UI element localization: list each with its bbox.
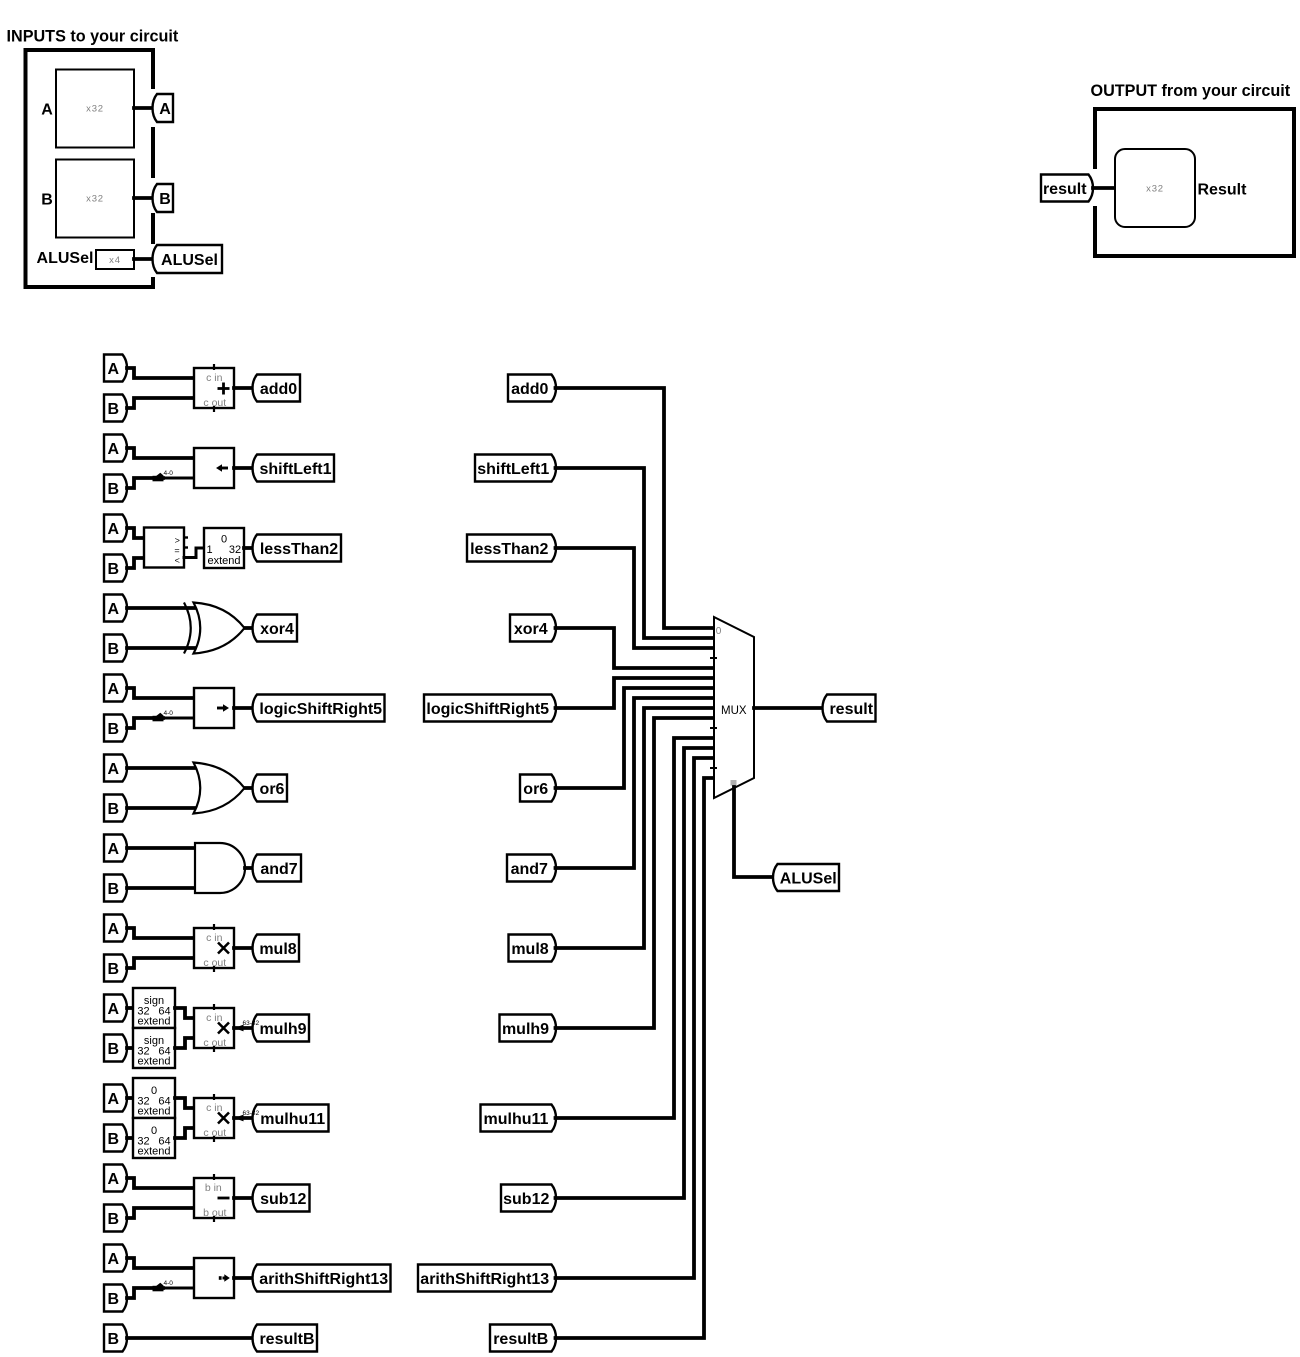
svg-text:sub12: sub12 (503, 1191, 549, 1208)
wire extB to multiplier row9 (175, 1038, 194, 1048)
wire adder to tunnel add0 (234, 386, 254, 390)
svg-text:<: < (175, 556, 180, 566)
svg-text:c out: c out (203, 1127, 226, 1139)
wire B to or (127, 806, 202, 810)
svg-text:0: 0 (151, 1085, 157, 1097)
splitter 4-0 row5 (153, 710, 174, 721)
tunnel add0 (left column) (253, 375, 301, 402)
svg-text:result: result (829, 701, 873, 718)
svg-text:b out: b out (203, 1207, 226, 1219)
tunnel B row13 (104, 1325, 127, 1352)
svg-text:x32: x32 (86, 104, 104, 115)
svg-text:resultB: resultB (493, 1331, 548, 1348)
svg-text:extend: extend (207, 555, 240, 567)
wire A to zero-extender (127, 1096, 133, 1100)
wire pin B to tunnel B (134, 196, 154, 200)
wire B to adder (127, 398, 194, 408)
AND gate (195, 843, 245, 893)
svg-text:lessThan2: lessThan2 (470, 541, 548, 558)
wire MUX output to tunnel result (754, 706, 823, 710)
tunnel A (inputs box) (153, 94, 174, 122)
MUX (16-input multiplexer) (710, 617, 754, 798)
svg-text:x32: x32 (86, 194, 104, 205)
svg-text:A: A (107, 761, 119, 778)
tunnel sub12 (left column) (253, 1185, 310, 1212)
tunnel resultB (left column) (253, 1325, 318, 1352)
tunnel B row2 (104, 475, 127, 502)
wire extender to tunnel lessThan2 (244, 546, 254, 550)
svg-text:and7: and7 (260, 861, 297, 878)
wire extB to multiplier row10 (175, 1128, 194, 1138)
svg-text:extend: extend (137, 1146, 170, 1158)
wire A to shifter row12 (127, 1258, 194, 1268)
svg-text:c out: c out (203, 957, 226, 969)
svg-text:mulh9: mulh9 (259, 1021, 306, 1038)
svg-text:result: result (1043, 181, 1087, 198)
label ALUSel (37, 250, 94, 267)
sign extenders 32->64 (133, 988, 175, 1068)
svg-text:B: B (107, 1211, 119, 1228)
svg-text:c in: c in (206, 1012, 223, 1024)
tunnel B row10 (104, 1125, 127, 1152)
wire A to shifter row5 (127, 688, 194, 698)
svg-text:add0: add0 (511, 381, 548, 398)
svg-text:c out: c out (203, 397, 226, 409)
wire A to subtractor (127, 1178, 194, 1188)
svg-text:A: A (107, 921, 119, 938)
output pin Result (x32) (1115, 149, 1195, 227)
tunnel A row4 (104, 595, 127, 622)
tunnel B row8 (104, 955, 127, 982)
svg-text:B: B (107, 961, 119, 978)
tunnel lessThan2 (left column) (253, 535, 342, 562)
svg-text:B: B (107, 801, 119, 818)
svg-text:sub12: sub12 (260, 1191, 306, 1208)
wire or to tunnel or6 (245, 786, 254, 790)
wire B to splitter row2 (127, 478, 163, 488)
svg-text:4-0: 4-0 (164, 470, 174, 477)
tunnel A row8 (104, 915, 127, 942)
tunnel logicShiftRight5 (left column) (253, 695, 385, 722)
svg-text:A: A (107, 441, 119, 458)
tunnel add0 (mux column) (508, 375, 556, 402)
tunnel A row9 (104, 995, 127, 1022)
XOR gate (184, 603, 245, 654)
wire B to zero-extender (127, 1136, 133, 1140)
svg-text:>: > (175, 536, 180, 546)
svg-text:B: B (107, 1331, 119, 1348)
svg-text:MUX: MUX (721, 705, 747, 717)
svg-text:mul8: mul8 (259, 941, 296, 958)
wire shifter to tunnel arithShiftRight13 (234, 1276, 254, 1280)
shift-left unit (194, 448, 234, 488)
wire xor to tunnel xor4 (245, 626, 254, 630)
svg-text:A: A (107, 1171, 119, 1188)
svg-text:INPUTS to your circuit: INPUTS to your circuit (7, 28, 179, 46)
wire B to xor (127, 646, 202, 650)
svg-text:x4: x4 (109, 255, 121, 266)
svg-text:63-32: 63-32 (243, 1110, 260, 1117)
svg-text:B: B (107, 721, 119, 738)
svg-text:or6: or6 (523, 781, 548, 798)
tunnel or6 (left column) (253, 775, 288, 802)
tunnel or6 (mux column) (520, 775, 556, 802)
wire B to splitter row5 (127, 718, 163, 728)
input pin ALUSel (x4) (96, 250, 134, 269)
svg-text:A: A (41, 102, 53, 119)
svg-text:OUTPUT from your circuit: OUTPUT from your circuit (1091, 82, 1291, 100)
wire mulh9 to MUX input (556, 718, 715, 1028)
tunnel xor4 (mux column) (510, 615, 556, 642)
svg-text:A: A (107, 681, 119, 698)
zero extenders 32->64 (133, 1078, 175, 1158)
wire tunnel result to pin Result (1093, 186, 1115, 190)
svg-text:logicShiftRight5: logicShiftRight5 (426, 701, 549, 718)
wire resultB to MUX input (556, 778, 715, 1338)
svg-text:B: B (107, 641, 119, 658)
svg-text:c in: c in (206, 932, 223, 944)
tunnel A row3 (104, 515, 127, 542)
svg-text:A: A (159, 101, 171, 118)
splitter 63-32 row9 (235, 1020, 260, 1032)
wire sub12 to MUX input (556, 748, 715, 1198)
svg-text:add0: add0 (260, 381, 297, 398)
wire A to xor (127, 606, 202, 610)
svg-text:resultB: resultB (259, 1331, 314, 1348)
multiplier row9 (194, 1004, 234, 1052)
wire splitter to shifter row12 (5 bits) (163, 1287, 194, 1290)
input pin B (x32) (56, 160, 134, 238)
svg-text:mulhu11: mulhu11 (260, 1111, 325, 1128)
tunnel A row7 (104, 835, 127, 862)
wire multiplier to tunnel mulh9 (234, 1026, 254, 1030)
wire lessThan2 to MUX input (556, 548, 715, 648)
tunnel shiftLeft1 (mux column) (475, 455, 556, 482)
svg-text:A: A (107, 601, 119, 618)
wire A to or (127, 766, 202, 770)
wire B to multiplier (127, 958, 194, 968)
tunnel mul8 (left column) (253, 935, 300, 962)
tunnel arithShiftRight13 (mux column) (418, 1265, 556, 1292)
svg-text:or6: or6 (260, 781, 285, 798)
logical shift-right unit (194, 688, 234, 728)
wire A to adder (127, 368, 194, 378)
tunnel A row12 (104, 1245, 127, 1272)
tunnel A row2 (104, 435, 127, 462)
wire shifter to tunnel logicShiftRight5 (234, 706, 254, 710)
svg-text:arithShiftRight13: arithShiftRight13 (420, 1271, 549, 1288)
wire comparator < output to extender (1 bit) (184, 548, 204, 558)
wire extA to multiplier row10 (175, 1098, 194, 1108)
svg-text:logicShiftRight5: logicShiftRight5 (259, 701, 382, 718)
wire B to comparator (127, 558, 144, 568)
input pin A (x32) (56, 70, 134, 148)
bit extender 1->32 (204, 528, 244, 568)
label B (41, 192, 53, 209)
splitter 4-0 row12 (153, 1280, 174, 1291)
tunnel B row1 (104, 395, 127, 422)
wire shifter to tunnel shiftLeft1 (234, 466, 254, 470)
svg-text:extend: extend (137, 1106, 170, 1118)
tunnel mulh9 (mux column) (500, 1015, 557, 1042)
label: INPUTS to your circuit (7, 28, 179, 46)
tunnel result (output box) (1041, 175, 1093, 202)
tunnel A row5 (104, 675, 127, 702)
wire B to tunnel resultB (127, 1336, 254, 1340)
tunnel B row5 (104, 715, 127, 742)
svg-text:xor4: xor4 (514, 621, 548, 638)
svg-text:mulhu11: mulhu11 (484, 1111, 549, 1128)
wire A to comparator (127, 528, 144, 538)
tunnel and7 (mux column) (507, 855, 556, 882)
svg-text:c in: c in (206, 1102, 223, 1114)
svg-text:A: A (107, 841, 119, 858)
svg-text:xor4: xor4 (260, 621, 294, 638)
wire A to and (127, 846, 196, 850)
svg-text:A: A (107, 1251, 119, 1268)
svg-text:B: B (107, 481, 119, 498)
subtractor (b in / - / b out) (194, 1174, 234, 1222)
svg-text:0: 0 (151, 1125, 157, 1137)
splitter 4-0 row2 (153, 470, 174, 481)
wire splitter to shifter row5 (5 bits) (163, 717, 194, 720)
wire extA to multiplier row9 (175, 1008, 194, 1018)
svg-text:0: 0 (221, 534, 227, 546)
tunnel mulh9 (left column) (253, 1015, 310, 1042)
svg-text:4-0: 4-0 (164, 1280, 174, 1287)
wire or6 to MUX input (556, 688, 715, 788)
splitter 63-32 row10 (235, 1110, 260, 1122)
wire A to sign-extender (127, 1006, 133, 1010)
wire pin ALUSel to tunnel ALUSel (134, 257, 154, 261)
svg-text:extend: extend (137, 1056, 170, 1068)
wire A to multiplier (127, 928, 194, 938)
svg-text:lessThan2: lessThan2 (260, 541, 338, 558)
label A (41, 102, 53, 119)
multiplier row10 (194, 1094, 234, 1142)
tunnel B (inputs box) (153, 184, 174, 212)
tunnel B row3 (104, 555, 127, 582)
wire B to sign-extender (127, 1046, 133, 1050)
arithmetic shift-right unit (194, 1258, 234, 1298)
wire and to tunnel and7 (245, 866, 254, 870)
svg-text:4-0: 4-0 (164, 710, 174, 717)
tunnel B row11 (104, 1205, 127, 1232)
svg-text:shiftLeft1: shiftLeft1 (260, 461, 332, 478)
tunnel arithShiftRight13 (left column) (253, 1265, 391, 1292)
tunnel ALUSel (inputs box) (153, 245, 223, 273)
svg-text:=: = (174, 546, 179, 556)
svg-text:B: B (107, 1131, 119, 1148)
svg-text:mul8: mul8 (511, 941, 548, 958)
multiplier (c in / x / c out) (194, 924, 234, 972)
svg-text:A: A (107, 1001, 119, 1018)
svg-text:A: A (107, 361, 119, 378)
tunnel mulhu11 (left column) (253, 1105, 329, 1132)
tunnel shiftLeft1 (left column) (253, 455, 335, 482)
wire multiplier to tunnel mulhu11 (234, 1116, 254, 1120)
svg-text:b in: b in (205, 1182, 222, 1194)
tunnel logicShiftRight5 (mux column) (424, 695, 556, 722)
svg-text:ALUSel: ALUSel (161, 252, 218, 269)
tunnel mul8 (mux column) (509, 935, 557, 962)
svg-text:Result: Result (1198, 182, 1248, 199)
tunnel result (mux output) (823, 695, 876, 722)
tunnel A row6 (104, 755, 127, 782)
svg-text:B: B (159, 191, 171, 208)
tunnel xor4 (left column) (253, 615, 298, 642)
svg-text:mulh9: mulh9 (502, 1021, 549, 1038)
annotation box OUTPUT (dashed left edge) (1095, 107, 1294, 258)
svg-text:B: B (41, 192, 53, 209)
svg-text:and7: and7 (511, 861, 548, 878)
label Result (1198, 182, 1248, 199)
svg-text:A: A (107, 521, 119, 538)
wire B to subtractor (127, 1208, 194, 1218)
tunnel B row4 (104, 635, 127, 662)
OR gate (194, 763, 245, 814)
svg-text:ALUSel: ALUSel (780, 870, 837, 887)
wire mulhu11 to MUX input (556, 738, 715, 1118)
svg-text:B: B (107, 401, 119, 418)
wire subtractor to tunnel sub12 (234, 1196, 254, 1200)
tunnel mulhu11 (mux column) (481, 1105, 557, 1132)
tunnel lessThan2 (mux column) (467, 535, 556, 562)
wire B to and (127, 886, 196, 890)
tunnel resultB (mux column) (490, 1325, 556, 1352)
wire pin A to tunnel A (134, 106, 154, 110)
wire B to splitter row12 (127, 1288, 163, 1298)
wire multiplier to tunnel mul8 (234, 946, 254, 950)
svg-text:arithShiftRight13: arithShiftRight13 (259, 1271, 388, 1288)
svg-text:shiftLeft1: shiftLeft1 (477, 461, 549, 478)
tunnel A row1 (104, 355, 127, 382)
svg-text:c in: c in (206, 372, 223, 384)
svg-text:0: 0 (716, 626, 722, 637)
tunnel B row7 (104, 875, 127, 902)
wire logicShiftRight5 to MUX input (556, 678, 715, 708)
svg-text:ALUSel: ALUSel (37, 250, 94, 267)
tunnel B row12 (104, 1285, 127, 1312)
wire mul8 to MUX input (556, 708, 715, 948)
annotation box INPUTS (dashed right edge) (26, 48, 154, 289)
wire MUX select to tunnel ALUSel (734, 787, 774, 877)
label: OUTPUT from your circuit (1091, 82, 1291, 100)
svg-text:63-32: 63-32 (243, 1020, 260, 1027)
tunnel A row11 (104, 1165, 127, 1192)
svg-text:x32: x32 (1146, 184, 1164, 195)
svg-text:A: A (107, 1091, 119, 1108)
wire A to shifter (127, 448, 194, 458)
wire arithShiftRight13 to MUX input (556, 758, 715, 1278)
svg-text:extend: extend (137, 1016, 170, 1028)
tunnel and7 (left column) (253, 855, 302, 882)
wire shiftLeft1 to MUX input (556, 468, 715, 638)
tunnel B row9 (104, 1035, 127, 1062)
tunnel sub12 (mux column) (501, 1185, 556, 1212)
wire xor4 to MUX input (556, 628, 715, 668)
svg-text:B: B (107, 881, 119, 898)
wire add0 to MUX input (556, 388, 715, 628)
comparator (> = <) (144, 528, 188, 568)
adder (c in / + / c out) (194, 364, 234, 412)
wire and7 to MUX input (556, 698, 715, 868)
svg-text:B: B (107, 1041, 119, 1058)
svg-text:c out: c out (203, 1037, 226, 1049)
tunnel B row6 (104, 795, 127, 822)
wire splitter to shifter row2 (5 bits) (163, 477, 194, 480)
svg-text:B: B (107, 1291, 119, 1308)
tunnel A row10 (104, 1085, 127, 1112)
tunnel ALUSel (mux select) (773, 864, 839, 891)
svg-text:B: B (107, 561, 119, 578)
